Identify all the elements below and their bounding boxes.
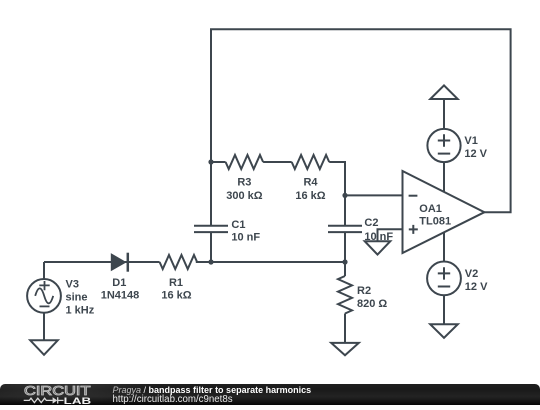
voltage source V2 [427, 262, 461, 296]
resistor R2 [338, 276, 352, 314]
wire feedback loop: output to top rail to left rail [211, 29, 511, 212]
wire R3 to R4 [263, 161, 292, 163]
op-amp OA1 [403, 171, 485, 253]
wire node B to C2 top [344, 195, 346, 225]
ground (V3) [30, 340, 58, 355]
wire VCC arrow to V1 [443, 99, 445, 129]
svg-text:TL081: TL081 [419, 216, 451, 228]
ground (R2) [331, 343, 359, 355]
capacitor C1 [194, 226, 228, 232]
svg-text:16 kΩ: 16 kΩ [295, 190, 325, 202]
url text [113, 394, 233, 405]
svg-text:OA1: OA1 [419, 203, 442, 215]
svg-text:V2: V2 [465, 268, 478, 280]
wire R4 to node B corner [329, 162, 345, 195]
svg-text:C2: C2 [364, 217, 378, 229]
wire node A to R3 [211, 161, 226, 163]
svg-text:12 V: 12 V [465, 281, 488, 293]
wire node C to R2 [344, 262, 346, 276]
power VCC arrow (V1) [430, 85, 457, 99]
wire R2 to ground [344, 314, 346, 343]
wire V3 riser [43, 262, 45, 279]
wire V3 to ground [43, 313, 45, 341]
pin + marker [409, 225, 418, 234]
wire left rail to C1 top [210, 162, 212, 226]
diode D1 [111, 253, 128, 272]
resistor R1 [160, 255, 198, 269]
svg-text:1N4148: 1N4148 [101, 290, 140, 302]
capacitor C2 [328, 226, 362, 232]
ground (op-amp non-inverting input) [365, 241, 391, 254]
wire bottom rail left (V3 to R1) [44, 261, 160, 263]
svg-text:12 V: 12 V [464, 148, 487, 160]
svg-text:R3: R3 [237, 177, 251, 189]
svg-text:16 kΩ: 16 kΩ [161, 290, 191, 302]
resistor R4 [292, 155, 330, 169]
CircuitLab logo [20, 381, 130, 406]
svg-text:R1: R1 [169, 277, 183, 289]
svg-text:D1: D1 [112, 277, 126, 289]
node D junction dot [208, 259, 213, 264]
svg-text:300 kΩ: 300 kΩ [226, 190, 263, 202]
wire V1 to op-amp V+ pin [443, 162, 445, 192]
pin - marker [409, 195, 418, 197]
svg-text:R2: R2 [357, 285, 371, 297]
voltage source V3 [27, 279, 61, 313]
wire op-amp V- pin to V2 [443, 232, 445, 261]
watermark bar [0, 384, 540, 405]
svg-text:R4: R4 [303, 177, 318, 189]
svg-text:1 kHz: 1 kHz [66, 305, 95, 317]
voltage source V1 [427, 129, 460, 162]
svg-text:sine: sine [66, 292, 88, 304]
resistor R3 [226, 155, 264, 169]
node C junction dot [342, 259, 347, 264]
svg-text:820 Ω: 820 Ω [357, 298, 387, 310]
ground (V2) [430, 324, 458, 338]
svg-text:V3: V3 [66, 278, 79, 290]
wire V2 to ground [443, 295, 445, 324]
wire node B to op-amp inverting input [345, 194, 403, 196]
svg-text:10 nF: 10 nF [364, 231, 393, 243]
wire C2 bottom to node C [344, 232, 346, 262]
node B junction dot [342, 193, 347, 198]
title text [113, 385, 312, 395]
svg-text:10 nF: 10 nF [231, 232, 260, 244]
node A junction dot [208, 159, 213, 164]
wire bottom rail right (R1 to node C) [196, 261, 345, 263]
svg-text:V1: V1 [464, 135, 477, 147]
svg-text:C1: C1 [231, 219, 245, 231]
wire op-amp non-inverting input to ground [378, 229, 403, 241]
wire C1 bottom to bottom rail [210, 232, 212, 262]
